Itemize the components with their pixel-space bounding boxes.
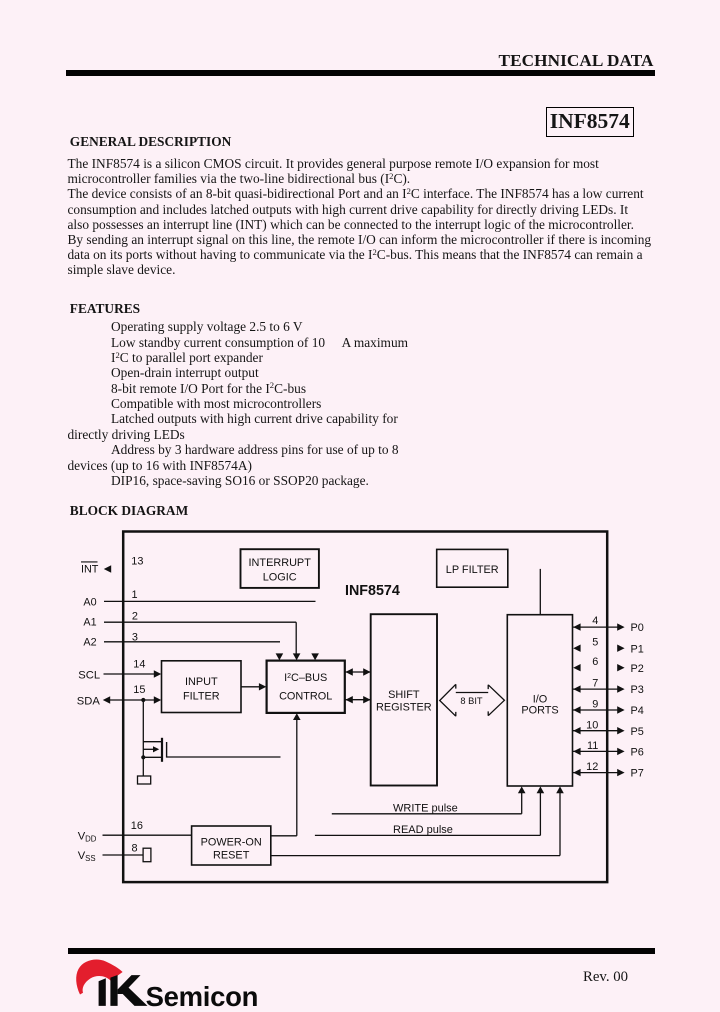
svg-text:6: 6 xyxy=(592,656,598,668)
svg-text:Semicon: Semicon xyxy=(146,981,259,1012)
svg-text:P0: P0 xyxy=(631,622,644,634)
svg-text:A0: A0 xyxy=(83,596,96,608)
svg-text:VSS: VSS xyxy=(78,850,96,863)
svg-text:FILTER: FILTER xyxy=(183,691,220,703)
svg-text:INPUT: INPUT xyxy=(185,676,218,688)
svg-text:POWER-ON: POWER-ON xyxy=(201,837,262,849)
svg-text:SHIFT: SHIFT xyxy=(388,689,420,701)
svg-text:8: 8 xyxy=(132,843,138,855)
svg-text:CONTROL: CONTROL xyxy=(279,691,332,703)
svg-text:PORTS: PORTS xyxy=(521,705,558,717)
svg-text:LOGIC: LOGIC xyxy=(263,571,297,583)
svg-text:8 BIT: 8 BIT xyxy=(460,696,483,706)
svg-text:1: 1 xyxy=(132,589,138,601)
svg-text:5: 5 xyxy=(592,637,598,649)
svg-text:P3: P3 xyxy=(631,684,644,696)
svg-text:2: 2 xyxy=(132,611,138,623)
svg-text:12: 12 xyxy=(586,761,598,773)
svg-text:RESET: RESET xyxy=(213,850,250,862)
svg-text:READ pulse: READ pulse xyxy=(393,824,453,836)
svg-text:SCL: SCL xyxy=(78,669,100,681)
svg-text:P6: P6 xyxy=(631,747,644,759)
svg-text:9: 9 xyxy=(592,698,598,710)
svg-text:P5: P5 xyxy=(631,726,644,738)
svg-text:INT: INT xyxy=(81,564,99,576)
svg-text:VDD: VDD xyxy=(78,830,97,843)
svg-text:A2: A2 xyxy=(83,637,96,649)
svg-text:SDA: SDA xyxy=(77,695,101,707)
svg-text:REGISTER: REGISTER xyxy=(376,701,432,713)
svg-text:A1: A1 xyxy=(83,617,96,629)
svg-text:INTERRUPT: INTERRUPT xyxy=(249,557,312,569)
svg-text:I2C–BUS: I2C–BUS xyxy=(284,672,327,684)
svg-text:3: 3 xyxy=(132,632,138,644)
svg-text:11: 11 xyxy=(587,740,598,752)
svg-text:16: 16 xyxy=(131,820,143,832)
svg-text:P1: P1 xyxy=(631,643,644,655)
svg-text:P2: P2 xyxy=(631,663,644,675)
svg-text:LP FILTER: LP FILTER xyxy=(446,564,499,576)
svg-text:13: 13 xyxy=(131,556,143,568)
svg-text:P7: P7 xyxy=(631,768,644,780)
svg-text:7: 7 xyxy=(592,677,598,689)
svg-text:14: 14 xyxy=(133,659,145,671)
svg-text:10: 10 xyxy=(586,719,598,731)
svg-text:INF8574: INF8574 xyxy=(345,583,400,599)
svg-text:WRITE pulse: WRITE pulse xyxy=(393,802,458,814)
svg-text:P4: P4 xyxy=(631,705,644,717)
svg-text:15: 15 xyxy=(133,684,145,696)
svg-text:4: 4 xyxy=(592,615,598,627)
